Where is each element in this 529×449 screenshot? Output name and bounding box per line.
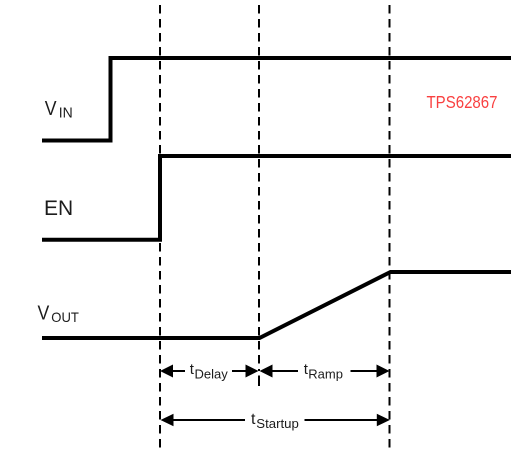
label TPS62867: [427, 92, 498, 112]
VOUT waveform: [42, 272, 511, 338]
svg-text:IN: IN: [59, 106, 73, 122]
svg-text:t: t: [251, 411, 256, 428]
label tDelay: [190, 361, 228, 382]
VIN waveform: [42, 58, 511, 141]
EN waveform: [42, 156, 511, 240]
svg-text:TPS62867: TPS62867: [427, 92, 498, 112]
arrow tStartup: [161, 414, 390, 427]
label VOUT: [38, 301, 80, 325]
dashed marker line t1 (EN rise): [159, 5, 161, 449]
svg-text:EN: EN: [44, 197, 73, 220]
arrow tDelay: [160, 365, 259, 378]
svg-text:OUT: OUT: [51, 310, 79, 325]
dashed marker line t3 (ramp end): [389, 5, 391, 449]
dashed marker line t2 (ramp start): [258, 5, 260, 386]
label EN: [44, 197, 73, 220]
svg-text:Startup: Startup: [256, 416, 299, 431]
svg-text:Delay: Delay: [195, 367, 229, 382]
label tRamp: [304, 361, 343, 382]
arrow tRamp: [260, 365, 390, 378]
label VIN: [45, 97, 73, 122]
svg-text:Ramp: Ramp: [308, 367, 343, 382]
svg-text:V: V: [38, 301, 50, 324]
svg-text:V: V: [45, 97, 57, 120]
label tStartup: [251, 411, 299, 431]
